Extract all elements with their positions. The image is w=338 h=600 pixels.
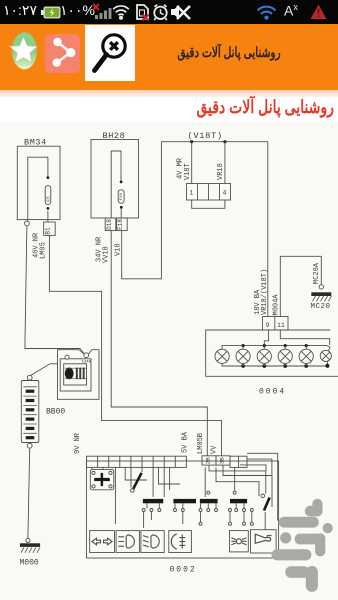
- interior wires right: [205, 465, 272, 507]
- wire from pin 11 up to ground MC20: [280, 256, 321, 316]
- wire pin9 to lamp bus: [264, 330, 268, 346]
- terminal at M000: [26, 538, 30, 542]
- connector pin row: [87, 456, 187, 467]
- white tile with magnifier: [85, 25, 135, 81]
- svg-text:1240: 1240: [82, 361, 92, 365]
- orange header bar: [0, 24, 338, 90]
- wifi white: [112, 4, 130, 20]
- interior unit inner box: [64, 364, 87, 385]
- wire LM05 from BM34 terminal to interior light unit: [25, 226, 84, 354]
- svg-text:BM34: BM34: [24, 138, 47, 148]
- contact bar 2: [173, 499, 196, 503]
- svg-text:B1: B1: [45, 227, 52, 235]
- wire lamp top bus: [222, 346, 330, 352]
- share button: [45, 34, 80, 73]
- motor symbol: [65, 368, 74, 380]
- status bar: [0, 0, 338, 24]
- connector pin B1: [44, 222, 56, 235]
- wire battery to interior light unit: [31, 364, 58, 376]
- wire VV18 from pin D18 down to switch pin 2B: [111, 231, 207, 456]
- interior wires left: [92, 467, 180, 524]
- connector pin E18: [117, 218, 128, 231]
- signal bars with red x: [92, 3, 114, 20]
- svg-text:BB00: BB00: [46, 408, 65, 417]
- fuse box BH28: [91, 140, 139, 219]
- svg-text:F5: F5: [46, 196, 52, 202]
- rheostat bypass connector V18T pins 1-4: [187, 184, 231, 201]
- lamp L1: [215, 349, 229, 363]
- symbol box: rear fog: [230, 531, 249, 552]
- node: F18 terminals: [120, 181, 123, 184]
- wires from right pins into switch: [240, 453, 278, 520]
- symbol box: horn: [251, 530, 277, 553]
- terminal at ground: [319, 285, 323, 289]
- wire VR18/(V18T) main drop to instrument cluster: [267, 142, 269, 317]
- connector pins right: [230, 456, 247, 467]
- wire LM05B from pin B1 down and across to switch pin 3B: [49, 235, 221, 455]
- svg-text:M004A: M004A: [272, 294, 280, 316]
- rotary light switch contact: [90, 469, 114, 489]
- battery BB00: [21, 381, 39, 443]
- svg-text:F18: F18: [120, 192, 124, 200]
- lamp stubs: [243, 346, 306, 366]
- svg-text:MC20: MC20: [311, 303, 331, 311]
- contact bar 4: [230, 499, 247, 503]
- terminal circle right with notch: [79, 350, 92, 355]
- lamp L3: [257, 349, 271, 363]
- svg-text:VR18: VR18: [217, 163, 225, 180]
- node on V18T line left: [190, 140, 193, 143]
- wire V18T drop to rheostat connector pin 1: [191, 142, 193, 184]
- svg-text:0004: 0004: [259, 388, 286, 397]
- svg-text:E18: E18: [117, 219, 124, 230]
- svg-text:9V NR: 9V NR: [74, 432, 82, 454]
- green star button: [9, 30, 41, 72]
- svg-text:VR18/(V18T): VR18/(V18T): [261, 269, 269, 315]
- battery icon: [41, 6, 61, 19]
- contact bar 3: [200, 499, 218, 503]
- svg-text:4: 4: [223, 190, 227, 197]
- connector M004A pins 9 and 11: [263, 317, 289, 331]
- watermark logo: [272, 499, 333, 592]
- symbol box: low beam: [141, 531, 164, 553]
- schematic svg placeholder: [0, 122, 338, 600]
- svg-text:VV: VV: [211, 445, 219, 454]
- lighting switch 0002 box: [87, 461, 279, 558]
- lamp L2: [236, 349, 250, 363]
- red warning triangle: [310, 4, 327, 20]
- terminal circle left: [65, 355, 69, 359]
- wire jumper loop below connector: [192, 200, 225, 208]
- terminal of BM34: [25, 221, 30, 226]
- short stubs bars to terminals: [144, 503, 252, 528]
- svg-text:D18: D18: [106, 219, 113, 230]
- svg-text:V18: V18: [114, 243, 122, 256]
- fuse F5: [45, 186, 51, 205]
- switch lever 2: [264, 498, 270, 511]
- interior unit mid box: [60, 359, 91, 391]
- node: F5 terminals: [47, 176, 50, 179]
- svg-text:5V BA: 5V BA: [182, 431, 190, 453]
- ground MC20: [311, 292, 331, 296]
- wire lamp bottom bus: [222, 361, 327, 366]
- switch lever 1: [133, 473, 142, 490]
- svg-text:VV18: VV18: [103, 246, 111, 263]
- wire/net V18T horizontal line: [161, 141, 267, 143]
- svg-text:2B: 2B: [205, 457, 212, 464]
- red page title: [0, 96, 334, 118]
- blue wifi: [256, 5, 277, 20]
- connector pin D18: [105, 218, 116, 231]
- lamp L4: [278, 349, 292, 363]
- svg-text:9: 9: [266, 322, 270, 329]
- symbol box: fog lamp: [169, 531, 192, 553]
- symbol box: hazard arrows: [90, 531, 115, 553]
- lamp L6: [320, 350, 331, 361]
- svg-text:1: 1: [190, 190, 194, 197]
- fuse F18: [118, 190, 124, 203]
- svg-text:0002: 0002: [170, 566, 197, 575]
- svg-text:MC20A: MC20A: [313, 262, 321, 284]
- wire VR18 drop to rheostat connector pin 4: [224, 142, 226, 184]
- wire pin11 to lamp return: [280, 330, 329, 345]
- svg-text:BH28: BH28: [103, 131, 126, 141]
- contact terminals: [142, 491, 253, 525]
- ground M000: [20, 543, 40, 547]
- connector pin 3B: [216, 456, 230, 465]
- svg-text:M000: M000: [20, 559, 39, 568]
- svg-text:LM05: LM05: [40, 242, 48, 259]
- lamp L5: [299, 349, 313, 363]
- svg-text:LM05B: LM05B: [197, 433, 205, 454]
- wire V18 from pin E18 up to rheostat line: [122, 142, 162, 279]
- muted speaker: [170, 3, 193, 21]
- svg-text:11: 11: [277, 322, 285, 329]
- alarm clock: [152, 4, 169, 21]
- instrument cluster 0004 box: [206, 330, 338, 376]
- connector pin 2B: [202, 456, 216, 465]
- svg-text:(V18T): (V18T): [188, 131, 223, 141]
- svg-text:3B: 3B: [219, 457, 226, 464]
- sim card with red x: [134, 4, 150, 21]
- symbol box: side lights: [116, 531, 139, 553]
- fuse box BM34: [17, 146, 60, 219]
- interior lighting unit outer box: [58, 350, 100, 400]
- svg-text:V18T: V18T: [184, 163, 192, 180]
- wire battery to ground M000: [28, 448, 30, 538]
- contact bar 1: [143, 499, 163, 503]
- node dots on buses: [241, 344, 329, 368]
- node on V18T line right: [223, 140, 226, 143]
